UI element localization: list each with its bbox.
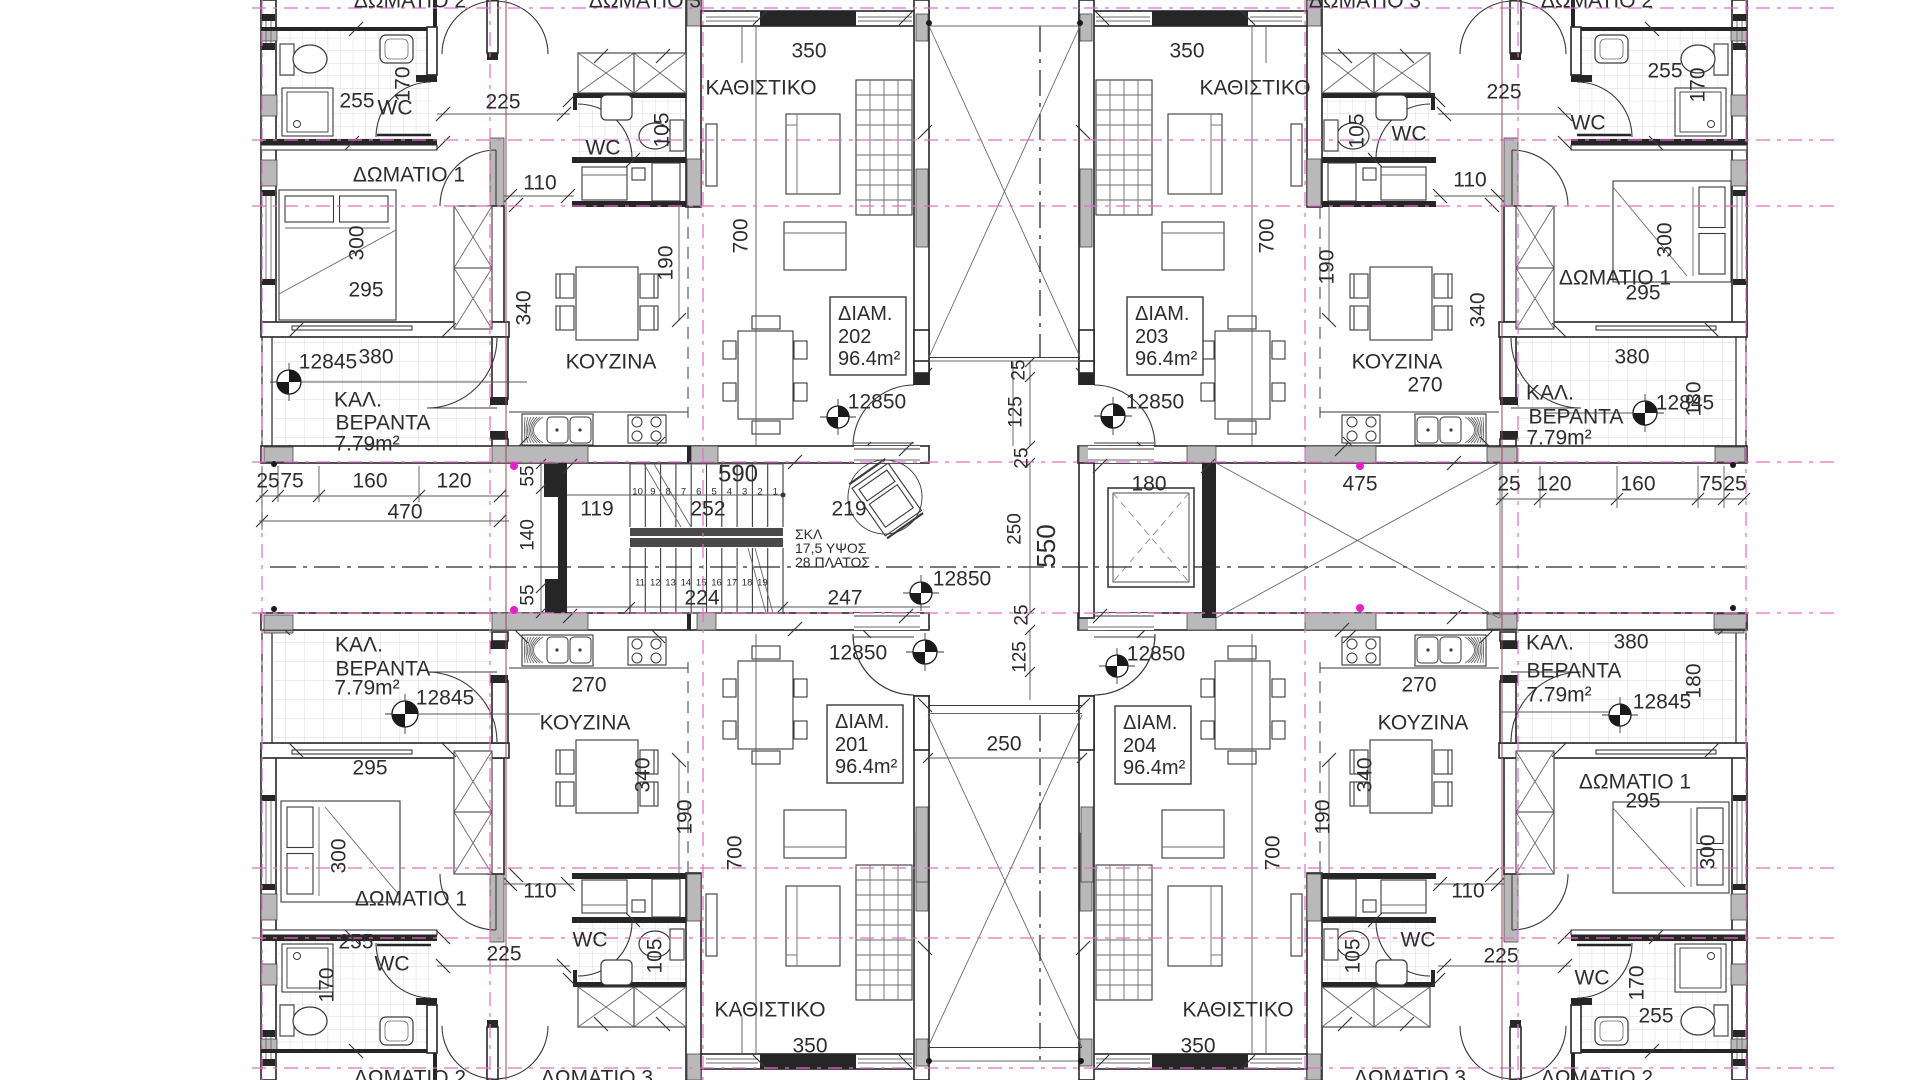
svg-text:ΚΑΘΙΣΤΙΚΟ: ΚΑΘΙΣΤΙΚΟ: [1199, 77, 1310, 100]
bedroom/veranda wall with window: [1499, 743, 1747, 758]
pram symbol on landing: [833, 445, 936, 548]
svg-text:204: 204: [1123, 735, 1156, 757]
bedroom/veranda wall with window: [261, 743, 509, 758]
svg-text:110: 110: [523, 880, 556, 903]
svg-text:ΔΙΑΜ.: ΔΙΑΜ.: [835, 711, 889, 733]
svg-text:170: 170: [1626, 965, 1649, 1000]
corridor 110 walls, bedroom door: [1504, 138, 1518, 230]
svg-text:75: 75: [280, 470, 303, 493]
svg-text:340: 340: [513, 290, 536, 325]
svg-text:12850: 12850: [1126, 391, 1184, 414]
svg-text:WC: WC: [573, 929, 608, 952]
svg-text:ΔΩΜΑΤΙΟ 3: ΔΩΜΑΤΙΟ 3: [589, 0, 701, 13]
svg-text:12: 12: [650, 578, 661, 589]
living room wall, hall closet: [1307, 0, 1322, 207]
living room outer wall with windows: [1079, 1054, 1307, 1069]
elevator shaft: [1079, 463, 1094, 618]
svg-text:ΚΟΥΖΙΝΑ: ΚΟΥΖΙΝΑ: [1378, 712, 1469, 735]
svg-text:ΔΙΑΜ.: ΔΙΑΜ.: [838, 303, 892, 325]
WC bathroom tiled floor: [1577, 941, 1730, 1049]
svg-text:295: 295: [1625, 282, 1660, 305]
svg-text:190: 190: [1312, 799, 1335, 834]
living room wall, hall closet: [686, 0, 701, 207]
svg-text:ΒΕΡΑΝΤΑ: ΒΕΡΑΝΤΑ: [336, 412, 431, 435]
svg-text:17: 17: [727, 578, 738, 589]
svg-text:475: 475: [1342, 473, 1377, 496]
svg-text:270: 270: [1407, 374, 1442, 397]
svg-text:ΔΩΜΑΤΙΟ 2: ΔΩΜΑΤΙΟ 2: [1541, 0, 1653, 13]
svg-text:12845: 12845: [299, 351, 357, 374]
svg-text:WC: WC: [1392, 123, 1427, 146]
svg-text:340: 340: [1354, 757, 1377, 792]
svg-text:380: 380: [1614, 346, 1649, 369]
svg-text:380: 380: [358, 346, 393, 369]
svg-text:10: 10: [632, 487, 643, 498]
svg-text:270: 270: [1401, 674, 1436, 697]
svg-text:12850: 12850: [829, 642, 887, 665]
svg-text:170: 170: [1687, 67, 1710, 102]
kitchen counter, sink, stove, table: [1320, 667, 1499, 669]
svg-text:19: 19: [757, 578, 768, 589]
svg-text:180: 180: [1683, 381, 1706, 416]
svg-text:WC: WC: [1571, 112, 1606, 135]
svg-text:550: 550: [1031, 524, 1061, 567]
svg-text:110: 110: [1453, 169, 1486, 192]
WC1 walls and door: [1571, 27, 1747, 31]
svg-text:470: 470: [387, 501, 422, 524]
svg-text:55: 55: [518, 584, 539, 605]
svg-text:WC: WC: [375, 953, 410, 976]
kitchen wall and veranda door: [492, 337, 508, 399]
svg-text:120: 120: [1536, 473, 1571, 496]
svg-text:12850: 12850: [848, 391, 906, 414]
svg-text:13: 13: [665, 578, 676, 589]
svg-text:WC: WC: [586, 137, 621, 160]
svg-text:9: 9: [650, 487, 655, 498]
svg-text:18: 18: [742, 578, 753, 589]
svg-text:202: 202: [838, 326, 871, 348]
living room wall at corridor, entrance door: [914, 696, 929, 1080]
svg-text:105: 105: [1346, 113, 1369, 148]
bed apartment 201: [281, 801, 400, 902]
WC2 walls and door: [573, 982, 688, 987]
svg-text:ΚΑΛ.: ΚΑΛ.: [334, 389, 382, 412]
svg-text:700: 700: [1262, 835, 1285, 870]
bed apartment 203: [1613, 181, 1731, 282]
svg-text:ΔΩΜΑΤΙΟ 3: ΔΩΜΑΤΙΟ 3: [541, 1067, 653, 1080]
kitchen wall and veranda door: [1500, 337, 1516, 399]
svg-text:380: 380: [1613, 631, 1648, 654]
svg-text:700: 700: [1256, 218, 1279, 253]
toilet, washbasin, shower: [1714, 1005, 1728, 1036]
exterior wall with windows: [1732, 750, 1747, 1080]
svg-text:350: 350: [1180, 1035, 1215, 1058]
svg-text:225: 225: [1483, 945, 1518, 968]
shelf unit, sofas, dining table: [856, 865, 912, 1000]
kitchen wall and veranda door: [492, 681, 508, 743]
WC2 washbasin and toilet: [1376, 960, 1407, 985]
svg-text:170: 170: [392, 66, 415, 101]
svg-text:140: 140: [518, 519, 539, 551]
dimension chains, level markers 12850/12845, magenta grid axes (drawn by script): [261, 0, 932, 462]
svg-text:75: 75: [1699, 473, 1722, 496]
svg-text:ΔΩΜΑΤΙΟ 1: ΔΩΜΑΤΙΟ 1: [355, 888, 467, 911]
corridor 110 walls, bedroom door: [1504, 850, 1518, 942]
svg-text:350: 350: [792, 1035, 827, 1058]
svg-text:ΒΕΡΑΝΤΑ: ΒΕΡΑΝΤΑ: [1527, 660, 1622, 683]
svg-text:300: 300: [1697, 834, 1720, 869]
kitchen counter, sink, stove, table: [509, 667, 688, 669]
svg-text:590: 590: [718, 461, 758, 488]
kitchen wall and veranda door: [1500, 681, 1516, 743]
svg-text:225: 225: [485, 91, 520, 114]
svg-text:WC: WC: [1401, 929, 1436, 952]
staircase: [558, 463, 567, 613]
svg-text:180: 180: [1683, 663, 1706, 698]
svg-text:12845: 12845: [416, 687, 474, 710]
svg-text:247: 247: [827, 587, 862, 610]
central core walls: [261, 446, 929, 463]
svg-text:ΚΟΥΖΙΝΑ: ΚΟΥΖΙΝΑ: [540, 712, 631, 735]
svg-text:12850: 12850: [933, 568, 991, 591]
svg-text:8: 8: [666, 487, 671, 498]
svg-text:300: 300: [328, 838, 351, 873]
svg-text:25: 25: [1009, 359, 1030, 380]
bottom light well shaft: [928, 715, 1082, 1047]
svg-text:25: 25: [1012, 447, 1033, 468]
corridor 110 walls, bedroom door: [490, 138, 504, 230]
svg-text:ΚΑΛ.: ΚΑΛ.: [1526, 382, 1574, 405]
shelf unit, sofas, dining table: [1096, 80, 1152, 215]
svg-text:350: 350: [1169, 40, 1204, 63]
WC1 walls and door: [261, 27, 437, 31]
living room wall at corridor, entrance door: [1079, 0, 1094, 384]
WC2 walls and door: [1320, 93, 1435, 98]
living room wall at corridor, entrance door: [1079, 696, 1094, 1080]
svg-text:7.79m²: 7.79m²: [1526, 427, 1591, 450]
svg-text:255: 255: [338, 931, 373, 954]
bedroom/veranda wall with window: [261, 322, 509, 337]
WC1 walls and door: [261, 1049, 437, 1053]
WC2 washbasin and toilet: [601, 95, 632, 120]
bed apartment 202: [279, 190, 396, 320]
exterior wall with windows: [261, 750, 276, 1080]
shelf unit, sofas, dining table: [1096, 865, 1152, 1000]
svg-text:ΚΟΥΖΙΝΑ: ΚΟΥΖΙΝΑ: [1352, 351, 1443, 374]
svg-text:350: 350: [791, 40, 826, 63]
svg-text:225: 225: [486, 943, 521, 966]
svg-text:6: 6: [696, 487, 701, 498]
svg-text:ΔΩΜΑΤΙΟ 2: ΔΩΜΑΤΙΟ 2: [354, 0, 466, 13]
svg-text:295: 295: [1625, 790, 1660, 813]
svg-text:105: 105: [1342, 938, 1365, 973]
svg-text:7.79m²: 7.79m²: [1526, 684, 1591, 707]
svg-text:250: 250: [1005, 513, 1026, 545]
svg-text:96.4m²: 96.4m²: [1135, 348, 1198, 370]
svg-text:25: 25: [256, 470, 279, 493]
svg-text:4: 4: [727, 487, 732, 498]
living room wall, hall closet: [686, 873, 701, 1080]
svg-text:ΚΑΛ.: ΚΑΛ.: [1526, 632, 1574, 655]
svg-text:ΔΩΜΑΤΙΟ 3: ΔΩΜΑΤΙΟ 3: [1309, 0, 1421, 13]
svg-text:7: 7: [681, 487, 686, 498]
svg-text:12850: 12850: [1127, 643, 1185, 666]
dimension chains under verandas: [259, 495, 509, 497]
svg-text:ΔΩΜΑΤΙΟ 2: ΔΩΜΑΤΙΟ 2: [354, 1067, 466, 1080]
core dimension chain: [1029, 362, 1031, 446]
svg-text:225: 225: [1486, 81, 1521, 104]
magenta grid axes and centerlines: [252, 7, 1840, 9]
svg-text:190: 190: [655, 245, 678, 280]
WC2 washbasin and toilet: [1376, 95, 1407, 120]
svg-text:ΔΙΑΜ.: ΔΙΑΜ.: [1123, 712, 1177, 734]
living room outer wall with windows: [701, 11, 929, 26]
open void with X bracing: [1216, 463, 1499, 618]
exterior wall with windows: [261, 0, 276, 330]
svg-text:700: 700: [724, 835, 747, 870]
living room outer wall with windows: [701, 1054, 929, 1069]
svg-text:ΚΑΘΙΣΤΙΚΟ: ΚΑΘΙΣΤΙΚΟ: [1182, 999, 1293, 1022]
bed apartment 204: [1613, 802, 1729, 893]
svg-text:190: 190: [674, 799, 697, 834]
svg-text:119: 119: [580, 498, 613, 521]
svg-text:7.79m²: 7.79m²: [334, 677, 399, 700]
svg-text:ΔΩΜΑΤΙΟ 1: ΔΩΜΑΤΙΟ 1: [353, 164, 465, 187]
svg-text:3: 3: [742, 487, 747, 498]
WC1 walls and door: [1571, 1049, 1747, 1053]
svg-text:96.4m²: 96.4m²: [838, 348, 901, 370]
svg-text:295: 295: [348, 279, 383, 302]
svg-text:25: 25: [1723, 473, 1746, 496]
svg-text:110: 110: [523, 172, 556, 195]
WC bathroom tiled floor: [1577, 31, 1730, 139]
svg-text:190: 190: [1316, 249, 1339, 284]
living room wall, hall closet: [1307, 873, 1322, 1080]
svg-text:ΚΑΘΙΣΤΙΚΟ: ΚΑΘΙΣΤΙΚΟ: [705, 77, 816, 100]
svg-text:203: 203: [1135, 326, 1168, 348]
toilet, washbasin, shower: [1714, 44, 1728, 75]
svg-text:25: 25: [1497, 473, 1520, 496]
WC bathroom tiled floor: [278, 941, 431, 1049]
svg-text:252: 252: [690, 498, 725, 521]
top light well shaft: [929, 26, 1080, 357]
WC2 walls and door: [573, 93, 688, 98]
svg-text:125: 125: [1006, 396, 1027, 428]
svg-text:28 ΠΛΑΤΟΣ: 28 ΠΛΑΤΟΣ: [795, 554, 870, 570]
svg-text:ΒΕΡΑΝΤΑ: ΒΕΡΑΝΤΑ: [1529, 406, 1624, 429]
survey level markers 12850 12845: [820, 416, 856, 418]
svg-text:270: 270: [571, 674, 606, 697]
svg-text:ΔΩΜΑΤΙΟ 3: ΔΩΜΑΤΙΟ 3: [1354, 1067, 1466, 1080]
svg-text:ΚΑΛ.: ΚΑΛ.: [335, 634, 383, 657]
svg-text:224: 224: [684, 587, 719, 610]
bedroom/veranda wall with window: [1499, 322, 1747, 337]
corridor 110 walls, bedroom door: [490, 850, 504, 942]
svg-text:201: 201: [835, 734, 868, 756]
svg-text:105: 105: [644, 938, 667, 973]
svg-text:255: 255: [1638, 1005, 1673, 1028]
svg-text:ΚΟΥΖΙΝΑ: ΚΟΥΖΙΝΑ: [566, 351, 657, 374]
svg-text:7.79m²: 7.79m²: [334, 433, 399, 456]
WC2 walls and door: [1320, 982, 1435, 987]
svg-text:ΔΙΑΜ.: ΔΙΑΜ.: [1135, 303, 1189, 325]
svg-text:11: 11: [635, 578, 645, 589]
toilet, washbasin, shower: [280, 44, 294, 75]
living room wall at corridor, entrance door: [914, 0, 929, 384]
svg-text:55: 55: [518, 465, 539, 486]
WC bathroom tiled floor: [278, 31, 431, 139]
svg-text:250: 250: [986, 733, 1021, 756]
svg-text:180: 180: [1131, 473, 1166, 496]
svg-text:ΔΩΜΑΤΙΟ 2: ΔΩΜΑΤΙΟ 2: [1541, 1067, 1653, 1080]
svg-text:160: 160: [352, 470, 387, 493]
svg-text:255: 255: [339, 90, 374, 113]
svg-text:340: 340: [632, 757, 655, 792]
svg-text:105: 105: [651, 112, 674, 147]
svg-text:700: 700: [730, 218, 753, 253]
shelf unit, sofas, dining table: [856, 80, 912, 215]
svg-text:300: 300: [1654, 222, 1677, 257]
living room outer wall with windows: [1079, 11, 1307, 26]
svg-text:170: 170: [316, 967, 339, 1002]
svg-text:160: 160: [1620, 473, 1655, 496]
svg-text:125: 125: [1010, 641, 1031, 673]
svg-text:300: 300: [346, 225, 369, 260]
exterior wall with windows: [1732, 0, 1747, 330]
svg-text:96.4m²: 96.4m²: [835, 756, 898, 778]
WC2 washbasin and toilet: [601, 960, 632, 985]
svg-text:219: 219: [831, 498, 866, 521]
svg-text:295: 295: [352, 757, 387, 780]
svg-text:255: 255: [1647, 60, 1682, 83]
svg-text:5: 5: [711, 487, 716, 498]
svg-text:WC: WC: [1575, 967, 1610, 990]
svg-text:120: 120: [436, 470, 471, 493]
kitchen counter, sink, stove, table: [1320, 411, 1499, 413]
svg-text:25: 25: [1012, 604, 1033, 625]
toilet, washbasin, shower: [280, 1005, 294, 1036]
svg-text:1: 1: [773, 487, 778, 498]
kitchen counter, sink, stove, table: [509, 411, 688, 413]
svg-text:ΚΑΘΙΣΤΙΚΟ: ΚΑΘΙΣΤΙΚΟ: [714, 999, 825, 1022]
svg-text:340: 340: [1467, 292, 1490, 327]
svg-text:110: 110: [1451, 880, 1484, 903]
svg-text:2: 2: [757, 487, 762, 498]
svg-text:96.4m²: 96.4m²: [1123, 757, 1186, 779]
